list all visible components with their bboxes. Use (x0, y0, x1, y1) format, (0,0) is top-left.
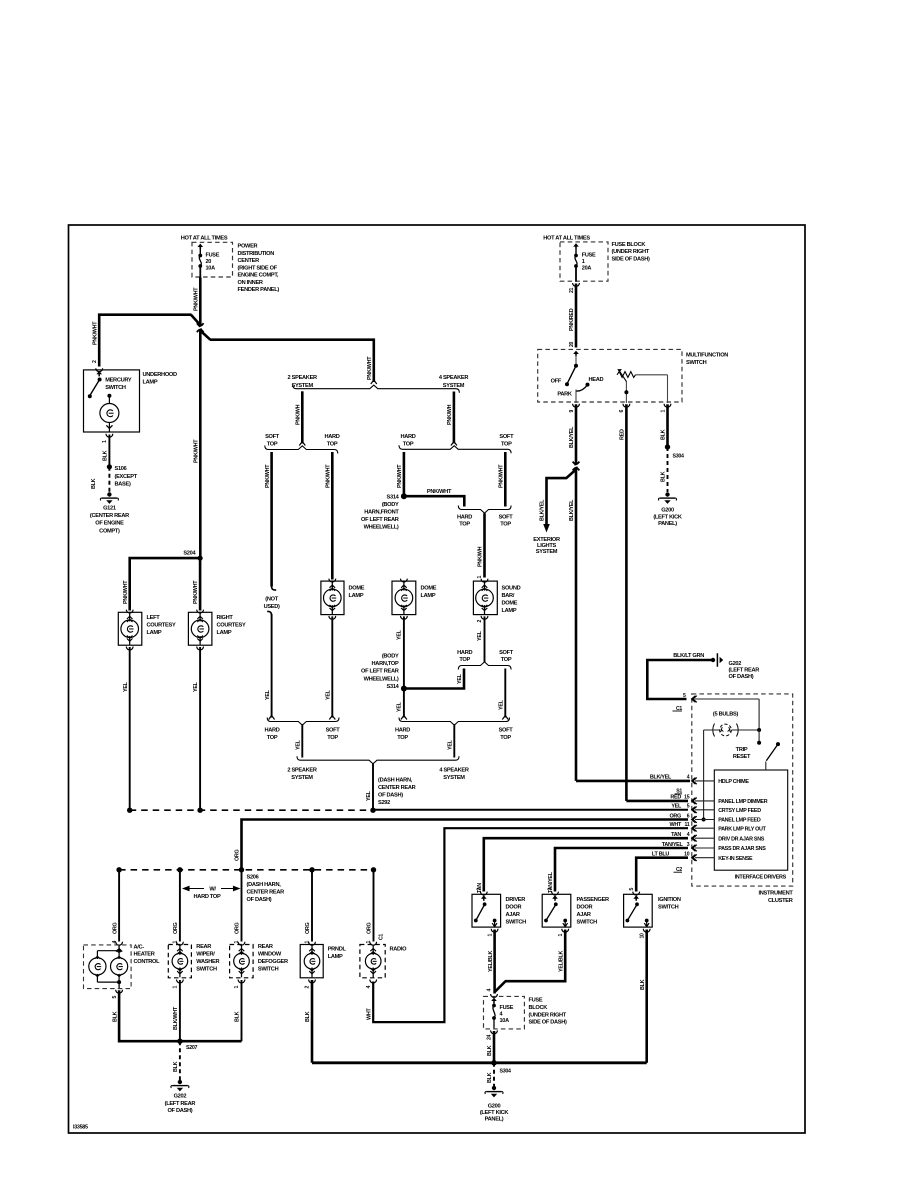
svg-text:SOFT: SOFT (499, 514, 514, 520)
pin 1 wiper (177, 980, 184, 983)
svg-text:I33585: I33585 (73, 1125, 88, 1131)
svg-text:4: 4 (112, 941, 118, 944)
svg-text:MERCURY: MERCURY (105, 378, 132, 384)
svg-text:WHEELWELL): WHEELWELL) (364, 525, 399, 531)
svg-text:TOP: TOP (267, 441, 278, 447)
svg-text:(5 BULBS): (5 BULBS) (713, 711, 739, 717)
hard/soft top merge to sound bar (458, 506, 511, 514)
wire ORG to radio (373, 870, 375, 942)
svg-text:YEL: YEL (123, 681, 129, 692)
wire PNK/WHT from fuse 20 (199, 278, 202, 559)
svg-text:SOFT: SOFT (499, 728, 514, 734)
svg-text:SWITCH: SWITCH (577, 919, 598, 925)
2/4 speaker system split (293, 385, 460, 393)
wire BLK from PRNDL to S304 bus (311, 980, 314, 1063)
svg-text:HARD: HARD (400, 434, 415, 440)
wire PNK/WHT branch to speaker systems (210, 340, 374, 382)
wire ORG to rear defogger switch (241, 870, 243, 942)
svg-text:DISTRIBUTION: DISTRIBUTION (238, 251, 275, 257)
svg-text:HDLP CHIME: HDLP CHIME (718, 779, 749, 785)
svg-text:AJAR: AJAR (506, 912, 520, 918)
PRNDL lamp (309, 942, 316, 945)
svg-text:4: 4 (486, 989, 492, 992)
svg-text:10A: 10A (500, 1018, 510, 1024)
wire YEL hard top to S314 (407, 669, 465, 689)
wire PNK/WHT soft top (not used) (270, 452, 273, 587)
pin 9 BLK/YEL out (573, 404, 580, 407)
wire YEL below S314 to merge (403, 689, 405, 718)
svg-text:TOP: TOP (459, 522, 470, 528)
svg-text:HOT AT ALL TIMES: HOT AT ALL TIMES (543, 236, 590, 242)
instrument cluster box (692, 694, 793, 886)
svg-text:24: 24 (487, 1034, 493, 1040)
wire hard top to dome lamp 2 (403, 452, 406, 496)
svg-text:PANEL): PANEL) (485, 1117, 504, 1123)
svg-text:S304: S304 (500, 1069, 512, 1075)
svg-text:2: 2 (92, 360, 98, 363)
wire PNK/WHT to left courtesy lamp (130, 558, 200, 610)
wire BLK dashed to G202 (179, 1041, 181, 1080)
wire YEL from left courtesy lamp to S292 (126, 647, 133, 650)
svg-text:(EXCEPT: (EXCEPT (115, 474, 138, 480)
wire BLK dashed to G200 (493, 1063, 495, 1086)
dome lamp 2 (401, 579, 408, 582)
svg-text:YEL: YEL (296, 739, 302, 750)
svg-text:BLK: BLK (235, 1011, 241, 1022)
svg-text:ORG: ORG (173, 922, 179, 934)
svg-text:WHEELWELL): WHEELWELL) (364, 676, 399, 682)
wire YEL below dome lamp 2 to S314 (401, 616, 408, 619)
svg-text:BLOCK: BLOCK (529, 1005, 549, 1011)
wire BLK from multifunction switch (666, 404, 669, 447)
svg-text:PANEL): PANEL) (658, 521, 677, 527)
fuse 1 20A in fuse block (560, 242, 608, 281)
svg-text:LAMP: LAMP (328, 954, 343, 960)
svg-text:TOP: TOP (403, 441, 414, 447)
svg-text:WINDOW: WINDOW (258, 951, 282, 957)
svg-text:COMPT): COMPT) (99, 528, 120, 534)
svg-text:BLK/WHT: BLK/WHT (173, 1006, 179, 1030)
svg-text:PNK/WH: PNK/WH (447, 404, 453, 425)
svg-text:S206: S206 (247, 875, 259, 881)
pin 1 defogger (238, 980, 245, 983)
svg-text:G200: G200 (488, 1104, 501, 1110)
wire PNK/WHT branch to mercury switch (99, 315, 191, 367)
svg-text:YEL: YEL (499, 699, 505, 710)
svg-text:BLK/YEL: BLK/YEL (569, 426, 575, 448)
svg-text:1: 1 (234, 986, 240, 989)
svg-text:PANEL LMP FEED: PANEL LMP FEED (718, 818, 761, 824)
svg-text:BLK: BLK (661, 471, 667, 482)
branch to exterior lights system (547, 470, 577, 525)
svg-text:WHT: WHT (366, 1008, 372, 1020)
4 speaker hard/soft top split (399, 445, 511, 453)
wire soft top right branch (504, 452, 507, 507)
wire BLK dashed to G121 (108, 467, 110, 493)
svg-text:MULTIFUNCTION: MULTIFUNCTION (686, 352, 728, 358)
svg-text:OFF: OFF (551, 379, 562, 385)
interface drivers box (714, 770, 787, 870)
svg-text:(BODY: (BODY (382, 654, 399, 660)
svg-text:TOP: TOP (267, 735, 278, 741)
ignition switch (633, 892, 640, 895)
svg-text:BLK/LT GRN: BLK/LT GRN (673, 653, 704, 659)
svg-text:1: 1 (173, 986, 179, 989)
svg-text:(LEFT REAR: (LEFT REAR (165, 1101, 196, 1107)
svg-text:CONTROL: CONTROL (134, 959, 161, 965)
svg-text:OF LEFT REAR: OF LEFT REAR (361, 669, 399, 675)
pin 24 (491, 1030, 498, 1033)
svg-text:CENTER: CENTER (238, 258, 260, 264)
svg-text:HARD: HARD (395, 728, 410, 734)
pin 4 radio (370, 980, 377, 983)
wire YEL row S292 to cluster (373, 809, 688, 811)
wire BLK/YEL from multifunction switch (575, 404, 578, 781)
svg-text:BLK: BLK (305, 1011, 311, 1022)
svg-text:SWITCH: SWITCH (105, 385, 126, 391)
wire PNK/WHT to right courtesy lamp (199, 558, 202, 610)
svg-text:INTERFACE DRIVERS: INTERFACE DRIVERS (735, 875, 787, 881)
w/ hard top arrows (183, 886, 204, 890)
svg-text:PNK/WHT: PNK/WHT (397, 464, 403, 488)
wire BLK ignition (645, 930, 648, 1063)
driver door ajar switch (480, 892, 487, 895)
svg-text:ORG: ORG (367, 922, 373, 934)
splice S314 body harn top (401, 686, 407, 692)
svg-text:G202: G202 (729, 661, 742, 667)
svg-text:1: 1 (558, 934, 564, 937)
svg-text:RED: RED (620, 429, 626, 440)
dimmer rheostat (617, 372, 636, 378)
svg-text:G200: G200 (661, 508, 674, 514)
svg-text:TOP: TOP (500, 735, 511, 741)
svg-text:TRIP: TRIP (736, 747, 748, 753)
svg-text:OF DASH): OF DASH) (729, 674, 754, 680)
svg-text:SYSTEM: SYSTEM (291, 775, 313, 781)
2 speaker soft/hard top split (265, 446, 338, 454)
svg-text:INSTRUMENT: INSTRUMENT (759, 891, 794, 897)
svg-text:9: 9 (569, 410, 575, 413)
wire ORG to A/C heater control (118, 870, 120, 942)
splice S304 upper (665, 444, 670, 449)
svg-text:SOFT: SOFT (499, 650, 514, 656)
svg-text:LAMP: LAMP (421, 593, 436, 599)
svg-text:COURTESY: COURTESY (147, 623, 176, 629)
svg-text:CRTSY LMP FEED: CRTSY LMP FEED (718, 808, 761, 814)
cluster lamp feed wires (695, 698, 760, 700)
svg-text:4 SPEAKER: 4 SPEAKER (439, 375, 469, 381)
svg-text:FUSE: FUSE (206, 252, 220, 258)
svg-text:PASS DR AJAR SNS: PASS DR AJAR SNS (718, 846, 766, 852)
svg-text:(NOT: (NOT (265, 597, 278, 603)
svg-text:1: 1 (305, 941, 311, 944)
wire BLK dashed to G200 (667, 447, 669, 492)
passenger door ajar switch (552, 892, 559, 895)
svg-text:BLK: BLK (112, 1011, 118, 1022)
svg-text:PNK/WH: PNK/WH (296, 404, 302, 425)
svg-text:KEY-IN SENSE: KEY-IN SENSE (718, 856, 753, 862)
svg-text:S314: S314 (387, 494, 400, 500)
svg-text:G202: G202 (174, 1094, 187, 1100)
svg-text:1: 1 (366, 941, 372, 944)
svg-text:TOP: TOP (397, 735, 408, 741)
speaker systems merge (297, 756, 459, 764)
svg-text:SOFT: SOFT (265, 434, 280, 440)
svg-text:10A: 10A (206, 265, 216, 271)
svg-text:PNK/WHT: PNK/WHT (499, 464, 505, 488)
wire PNK/RED (575, 284, 578, 348)
svg-text:LAMP: LAMP (217, 630, 232, 636)
svg-text:YEL: YEL (397, 629, 403, 640)
svg-text:DOOR: DOOR (506, 904, 522, 910)
svg-text:(RIGHT SIDE OF: (RIGHT SIDE OF (238, 265, 278, 271)
svg-text:REAR: REAR (196, 944, 211, 950)
svg-text:LEFT: LEFT (147, 615, 161, 621)
wire LT BLU row (636, 858, 688, 892)
svg-text:SYSTEM: SYSTEM (291, 383, 313, 389)
ground G202 right (711, 658, 715, 662)
svg-text:4: 4 (366, 986, 372, 989)
hard/soft top split below sound bar (458, 662, 511, 670)
svg-text:SWITCH: SWITCH (506, 919, 527, 925)
ground G121 (107, 492, 111, 496)
svg-text:4 SPEAKER: 4 SPEAKER (439, 767, 469, 773)
svg-text:SWITCH: SWITCH (258, 966, 279, 972)
wire PNK/WHT from S314 to hard/soft merge (404, 496, 464, 506)
svg-text:FUSE: FUSE (582, 252, 596, 258)
splice S304 bus (312, 1061, 647, 1064)
svg-text:(BODY: (BODY (382, 502, 399, 508)
svg-text:HARD: HARD (264, 728, 279, 734)
splice S292 dashed bus (130, 809, 373, 811)
svg-text:WHT: WHT (670, 822, 682, 828)
svg-text:SYSTEM: SYSTEM (443, 383, 465, 389)
svg-text:DEFOGGER: DEFOGGER (258, 959, 288, 965)
svg-text:PNK/WHT: PNK/WHT (265, 464, 271, 488)
mercury switch underhood lamp (84, 370, 140, 432)
wire YEL soft top down (504, 669, 506, 718)
svg-text:LAMP: LAMP (143, 379, 158, 385)
wire YEL from right courtesy lamp to S292 (197, 647, 204, 650)
svg-text:RIGHT: RIGHT (217, 615, 234, 621)
svg-text:TOP: TOP (501, 657, 512, 663)
svg-text:(LEFT KICK: (LEFT KICK (653, 514, 683, 520)
svg-text:SWITCH: SWITCH (196, 966, 217, 972)
svg-text:2 SPEAKER: 2 SPEAKER (287, 767, 317, 773)
svg-text:PARK LMP RLY OUT: PARK LMP RLY OUT (718, 826, 766, 832)
wire BLK from A/C heater (119, 990, 241, 1041)
svg-text:YEL: YEL (193, 681, 199, 692)
svg-text:TOP: TOP (500, 522, 511, 528)
svg-text:5: 5 (683, 693, 686, 699)
splice S204 (198, 556, 203, 561)
wire RED from multifunction switch (625, 404, 628, 801)
svg-text:TOP: TOP (327, 441, 338, 447)
splice S314 body harn front (401, 493, 407, 499)
svg-text:SOFT: SOFT (499, 434, 514, 440)
svg-text:TOP: TOP (327, 735, 338, 741)
multifunction switch (538, 349, 682, 402)
svg-text:LAMP: LAMP (349, 593, 364, 599)
wire YEL not used branch to merge (267, 611, 271, 615)
svg-text:HARD TOP: HARD TOP (194, 894, 221, 900)
svg-text:OF LEFT REAR: OF LEFT REAR (361, 517, 399, 523)
svg-text:SIDE OF DASH): SIDE OF DASH) (612, 257, 651, 263)
wire BLK/LT GRN to G202 (647, 660, 712, 699)
svg-text:1: 1 (173, 941, 179, 944)
right courtesy lamp (197, 610, 204, 613)
svg-text:REAR: REAR (258, 944, 273, 950)
svg-text:(DASH HARN,: (DASH HARN, (378, 778, 413, 784)
svg-text:BLK: BLK (661, 429, 667, 440)
svg-text:W/: W/ (209, 887, 216, 893)
pin 1 mercury switch (106, 434, 113, 437)
svg-text:FENDER PANEL): FENDER PANEL) (238, 287, 280, 293)
svg-text:20: 20 (206, 259, 212, 265)
svg-text:BLK: BLK (487, 1045, 493, 1056)
svg-text:BLK: BLK (640, 979, 646, 990)
svg-text:ORG: ORG (235, 849, 241, 861)
svg-text:PNK/WHT: PNK/WHT (193, 580, 199, 604)
svg-text:5: 5 (687, 804, 690, 810)
svg-text:YEL/BLK: YEL/BLK (488, 950, 494, 972)
svg-text:1: 1 (582, 259, 585, 265)
svg-text:YEL: YEL (477, 630, 483, 641)
svg-text:ORG: ORG (112, 922, 118, 934)
svg-text:HEATER: HEATER (134, 952, 155, 958)
wire YEL to S292 (372, 764, 374, 811)
svg-text:RADIO: RADIO (390, 947, 408, 953)
wire YEL/BLK passenger (505, 930, 565, 982)
wire PNK/WHT 2 speaker (301, 391, 304, 443)
svg-text:S204: S204 (183, 551, 196, 557)
svg-text:DOME: DOME (349, 586, 365, 592)
splice S207 (177, 1039, 182, 1044)
svg-text:2: 2 (305, 986, 311, 989)
svg-text:HEAD: HEAD (589, 377, 604, 383)
svg-text:FUSE: FUSE (500, 1005, 514, 1011)
wire BLK below mercury switch (108, 435, 110, 467)
svg-text:(LEFT REAR: (LEFT REAR (729, 668, 760, 674)
wire RED row (626, 800, 688, 803)
pin 5 A/C heater (116, 990, 123, 993)
svg-text:YEL: YEL (671, 804, 682, 810)
svg-text:S106: S106 (115, 466, 127, 472)
inline connector BLK/YEL (573, 462, 580, 466)
svg-text:BLK: BLK (173, 1061, 179, 1072)
svg-text:HARN,FRONT: HARN,FRONT (364, 510, 399, 516)
svg-text:PNK/WHT: PNK/WHT (194, 287, 200, 311)
4 speaker merge (399, 718, 510, 726)
svg-text:1: 1 (234, 941, 240, 944)
inline connector on PNK/WHT wire (191, 315, 200, 325)
fuse 20 10A in power distribution center (192, 242, 233, 277)
svg-text:YEL: YEL (448, 739, 454, 750)
svg-text:1: 1 (102, 440, 108, 443)
pin 21 (573, 283, 580, 286)
wire ORG to PRNDL lamp (311, 870, 313, 942)
svg-text:PNK/WH: PNK/WH (478, 546, 484, 567)
rear wiper/washer switch (177, 942, 184, 945)
svg-text:ON INNER: ON INNER (238, 280, 263, 286)
svg-text:(CENTER REAR: (CENTER REAR (90, 513, 129, 519)
svg-text:HOT AT ALL TIMES: HOT AT ALL TIMES (181, 236, 228, 242)
svg-text:OF DASH): OF DASH) (378, 793, 403, 799)
svg-text:LAMP: LAMP (502, 608, 517, 614)
svg-text:(UNDER RIGHT: (UNDER RIGHT (612, 249, 650, 255)
svg-text:(LEFT KICK: (LEFT KICK (480, 1110, 510, 1116)
svg-text:PARK: PARK (557, 392, 573, 398)
svg-text:BASE): BASE) (115, 482, 131, 488)
svg-text:S314: S314 (387, 684, 400, 690)
svg-text:SWITCH: SWITCH (686, 360, 707, 366)
svg-text:CENTER REAR: CENTER REAR (378, 785, 416, 791)
wire YEL below dome lamp 1 (329, 616, 336, 619)
svg-text:HARD: HARD (457, 514, 472, 520)
wire YEL 4 speaker merge out (453, 724, 455, 757)
svg-text:5: 5 (112, 996, 118, 999)
wire YEL sound bar output (481, 616, 488, 619)
svg-text:20: 20 (569, 341, 575, 347)
svg-text:YEL: YEL (366, 790, 372, 801)
pin 1 BLK out (664, 404, 671, 407)
svg-text:BLK/YEL: BLK/YEL (540, 499, 546, 521)
svg-text:20A: 20A (582, 265, 592, 271)
sound bar dome lamp (473, 581, 497, 615)
svg-text:OF DASH): OF DASH) (247, 897, 272, 903)
svg-text:TOP: TOP (501, 441, 512, 447)
svg-text:10: 10 (639, 933, 645, 939)
svg-text:UNDERHOOD: UNDERHOOD (143, 372, 178, 378)
svg-text:WASHER: WASHER (196, 959, 219, 965)
svg-text:ORG: ORG (235, 922, 241, 934)
wire BLK/WHT from wiper to S207 (179, 980, 181, 1041)
svg-text:YEL: YEL (326, 689, 332, 700)
svg-text:2: 2 (477, 620, 483, 623)
svg-text:S292: S292 (378, 800, 390, 806)
svg-text:YEL/BLK: YEL/BLK (558, 950, 564, 972)
svg-text:ORG: ORG (305, 922, 311, 934)
svg-text:TOP: TOP (459, 657, 470, 663)
ground G200 bottom (492, 1086, 496, 1090)
svg-text:PNK/WHT: PNK/WHT (367, 356, 373, 380)
svg-text:21: 21 (569, 287, 575, 293)
svg-text:C1: C1 (379, 934, 385, 940)
svg-text:PNK/WHT: PNK/WHT (427, 489, 452, 495)
svg-text:3: 3 (548, 888, 554, 891)
svg-text:IGNITION: IGNITION (658, 897, 681, 903)
left courtesy lamp (126, 610, 133, 613)
svg-text:1: 1 (477, 576, 483, 579)
svg-text:PNK/WHT: PNK/WHT (194, 439, 200, 463)
svg-text:(UNDER RIGHT: (UNDER RIGHT (529, 1012, 567, 1018)
ground G202 bottom (178, 1080, 182, 1084)
svg-text:6: 6 (619, 410, 625, 413)
svg-text:SYSTEM: SYSTEM (443, 775, 465, 781)
svg-text:FUSE: FUSE (529, 998, 543, 1004)
svg-text:SWITCH: SWITCH (658, 904, 679, 910)
pin connector chevrons (692, 696, 697, 703)
radio (370, 942, 377, 945)
svg-text:CENTER REAR: CENTER REAR (247, 890, 285, 896)
svg-text:S304: S304 (673, 454, 685, 460)
svg-text:USED): USED) (264, 604, 280, 610)
svg-text:SOUND: SOUND (502, 586, 521, 592)
svg-text:5: 5 (629, 888, 635, 891)
svg-text:SOFT: SOFT (326, 728, 341, 734)
pin 6 RED out (623, 404, 630, 407)
svg-text:WIPER/: WIPER/ (196, 951, 215, 957)
